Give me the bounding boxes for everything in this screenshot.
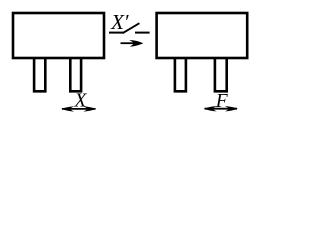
lead line break slash xyxy=(123,23,140,33)
block left (crystal body) xyxy=(13,13,104,58)
left block leg 2 xyxy=(70,58,81,91)
left block leg 1 xyxy=(34,58,45,91)
arrow from left block to right block xyxy=(121,40,144,47)
lead line left segment (underline of X') xyxy=(109,32,124,34)
block right (crystal body) xyxy=(157,13,248,58)
lead line right segment xyxy=(135,32,150,34)
double arrow under right block xyxy=(204,106,238,111)
right block leg 1 xyxy=(175,58,186,91)
double arrow under left block xyxy=(61,106,96,111)
right block leg 2 xyxy=(215,58,227,91)
